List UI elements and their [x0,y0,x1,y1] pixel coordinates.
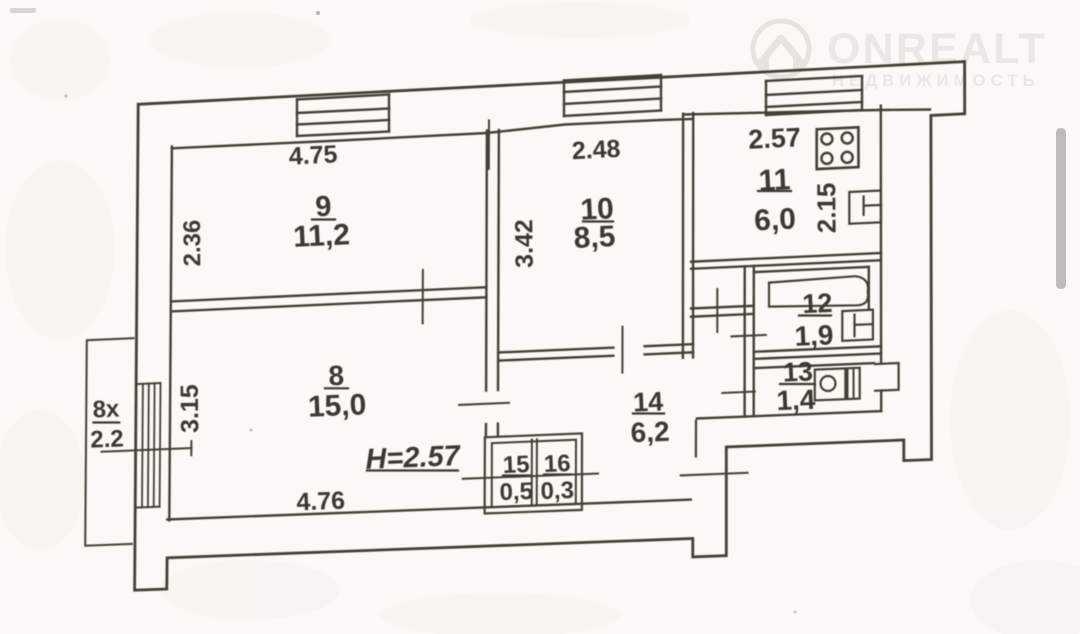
bath 12/toilet 13 divider upper line [754,346,881,352]
svg-text:6,0: 6,0 [753,203,796,238]
svg-text:8,5: 8,5 [573,220,616,255]
window W3 glazing line 2 [766,102,862,107]
south wall of toilet block inner line [697,411,881,418]
closet partition line west [531,440,533,506]
page scrollbar thumb [1056,128,1066,289]
underline of room number 8 [325,387,348,389]
door tick of bathroom 12 door [732,335,766,337]
window W2 top line [564,75,661,81]
stove outline in kitchen 11 [817,127,859,169]
balcony dimension leader line [102,448,192,452]
closets 15/16 inner box [492,440,576,508]
svg-text:4.75: 4.75 [288,140,338,170]
door tick of entrance door [681,473,748,476]
inner line of south outer wall [167,500,691,520]
svg-text:8: 8 [328,360,345,392]
room 8/9 divider wall lower line [172,297,487,311]
room 8/9 divider wall upper line [172,287,487,301]
inner line of top outer wall (right part) [684,110,930,115]
underline of ceiling height label [367,469,458,471]
door tick of lobby door [716,289,718,332]
kitchen sink outline [849,191,881,224]
svg-text:4.76: 4.76 [296,487,346,517]
svg-text:15,0: 15,0 [307,388,367,423]
bathroom block west wall inner line [753,266,755,416]
underline of room number 15 [503,474,530,476]
room 10 south wall upper line (east segment) [645,344,693,346]
svg-text:2.2: 2.2 [90,425,124,453]
washbasin outline in bathroom 12 [842,310,873,341]
room 9/10 divider wall left line upper part [485,131,488,391]
underline of room number 10 [583,220,613,222]
balcony window jamb line [159,383,162,507]
svg-text:11: 11 [758,163,791,197]
room 10/kitchen divider west line [682,114,685,358]
door tick of room 10 door [621,327,623,373]
door tick of toilet 13 door [722,392,755,393]
svg-text:2.48: 2.48 [571,135,621,165]
room 9/10 divider wall right line upper part [497,130,500,390]
svg-text:8x: 8x [92,395,120,423]
window W2 right jamb [660,75,662,111]
window W1 right jamb [388,95,390,132]
toilet tank inner line [853,370,855,397]
inner line of right outer wall (lower) [880,391,882,412]
toilet bowl outline [815,368,846,400]
svg-text:2.36: 2.36 [179,220,206,267]
svg-text:1,9: 1,9 [794,319,834,352]
balcony window glazing line 1 [141,384,144,508]
balcony window glazing line 3 [153,383,156,507]
toilet tank outline [847,368,859,399]
window W1 glazing line 2 [297,120,389,125]
underline of room number 13 [780,383,815,385]
window W1 left jamb [296,100,298,137]
door tick line of closets [463,474,598,479]
svg-text:3.15: 3.15 [176,384,204,433]
svg-text:0,3: 0,3 [540,477,574,505]
door tick in room 8/9 divider wall [422,270,424,324]
washbasin tap line [855,323,873,326]
bathroom 12 inner right line [868,267,870,310]
room 9/10 divider wall left line lower part [485,424,488,435]
outer wall boundary of apartment [135,62,965,591]
window W2 bottom line [564,111,661,117]
stove burner 4 [842,152,853,163]
room 10 south wall upper line (west segment) [498,348,613,353]
balcony window bottom line [135,506,159,509]
underline of room number 14 [633,412,664,414]
wall junction tick on top wall at rooms 9/10 [488,120,490,168]
underline of room number 11 [758,190,791,192]
scan speck [793,610,796,613]
svg-text:2.15: 2.15 [811,182,841,233]
window W2 glazing line 1 [564,87,661,93]
svg-text:2.57: 2.57 [748,122,802,155]
window W3 right jamb [861,76,863,110]
washbasin tap vertical [853,315,855,337]
entrance wall west line [695,421,697,457]
kitchen 11 south wall upper line [691,253,881,262]
window W2 glazing line 2 [564,99,661,105]
window W3 top line [766,76,862,81]
toilet bowl circle [821,376,836,391]
scan speck top left [10,8,36,13]
bathtub in bathroom 12 [769,276,868,306]
closet partition line east [536,439,538,505]
svg-text:11,2: 11,2 [292,218,350,254]
inner line of right outer wall (upper) [880,106,883,364]
underline of room number 12 [799,314,831,316]
scan speck [250,429,253,432]
ONREALT watermark house icon [753,21,809,77]
inner line of left outer wall [169,147,172,521]
balcony dimension end tick [190,441,192,455]
svg-text:0,5: 0,5 [499,478,533,506]
window W1 top line [297,95,389,100]
kitchen 11 south wall lower line [691,260,881,269]
room 10 south wall lower line (east segment) [645,352,693,354]
kitchen sink tap line [864,204,881,207]
bathroom 12 inner top line [754,267,869,272]
underline of balcony label [94,421,120,423]
room 9/10 divider wall right line lower part [497,424,499,435]
toilet 13 inner top line [754,363,874,368]
window W1 glazing line 1 [297,109,389,114]
underline of room number 9 [312,218,335,220]
stove burner 1 [821,134,832,145]
stove burner 2 [842,133,853,144]
svg-text:3.42: 3.42 [510,219,538,268]
window W3 bottom line [766,110,862,115]
balcony window top line [136,383,160,384]
window W2 left jamb [563,81,565,117]
window W3 glazing line 1 [766,90,862,95]
room 10 south wall lower line (west segment) [498,356,613,361]
plumbing niche right of toilet 13 [874,363,899,391]
hall/lobby wall lower line [691,314,754,317]
stove burner 3 [821,153,832,164]
room 10/kitchen divider east line [692,113,695,357]
scan speck [316,11,320,15]
window W1 bottom line [297,132,389,137]
kitchen sink tap vertical [862,197,864,215]
closets 15/16 outer box [485,433,582,513]
window W3 left jamb [765,81,767,115]
bath 12/toilet 13 divider lower line [754,354,881,359]
scan speck [64,94,67,97]
underline of room number 16 [544,473,571,475]
hall/lobby wall upper line [691,306,754,309]
svg-text:1,4: 1,4 [776,384,817,417]
inner line of top outer wall (left part) [172,119,692,148]
bathroom block west wall outer line [743,266,746,416]
door tick of room 8 door to hall [459,403,509,405]
svg-text:6,2: 6,2 [630,416,670,449]
balcony window glazing line 2 [147,384,150,508]
balcony 8x outline [85,338,134,546]
